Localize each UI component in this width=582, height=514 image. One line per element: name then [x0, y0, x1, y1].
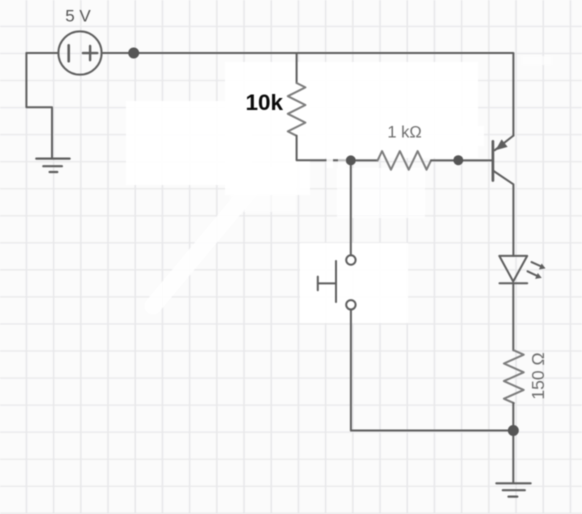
- svg-text:1 kΩ: 1 kΩ: [387, 124, 421, 142]
- svg-text:10k: 10k: [246, 90, 284, 115]
- svg-text:150 Ω: 150 Ω: [528, 352, 548, 399]
- svg-text:5 V: 5 V: [65, 7, 91, 26]
